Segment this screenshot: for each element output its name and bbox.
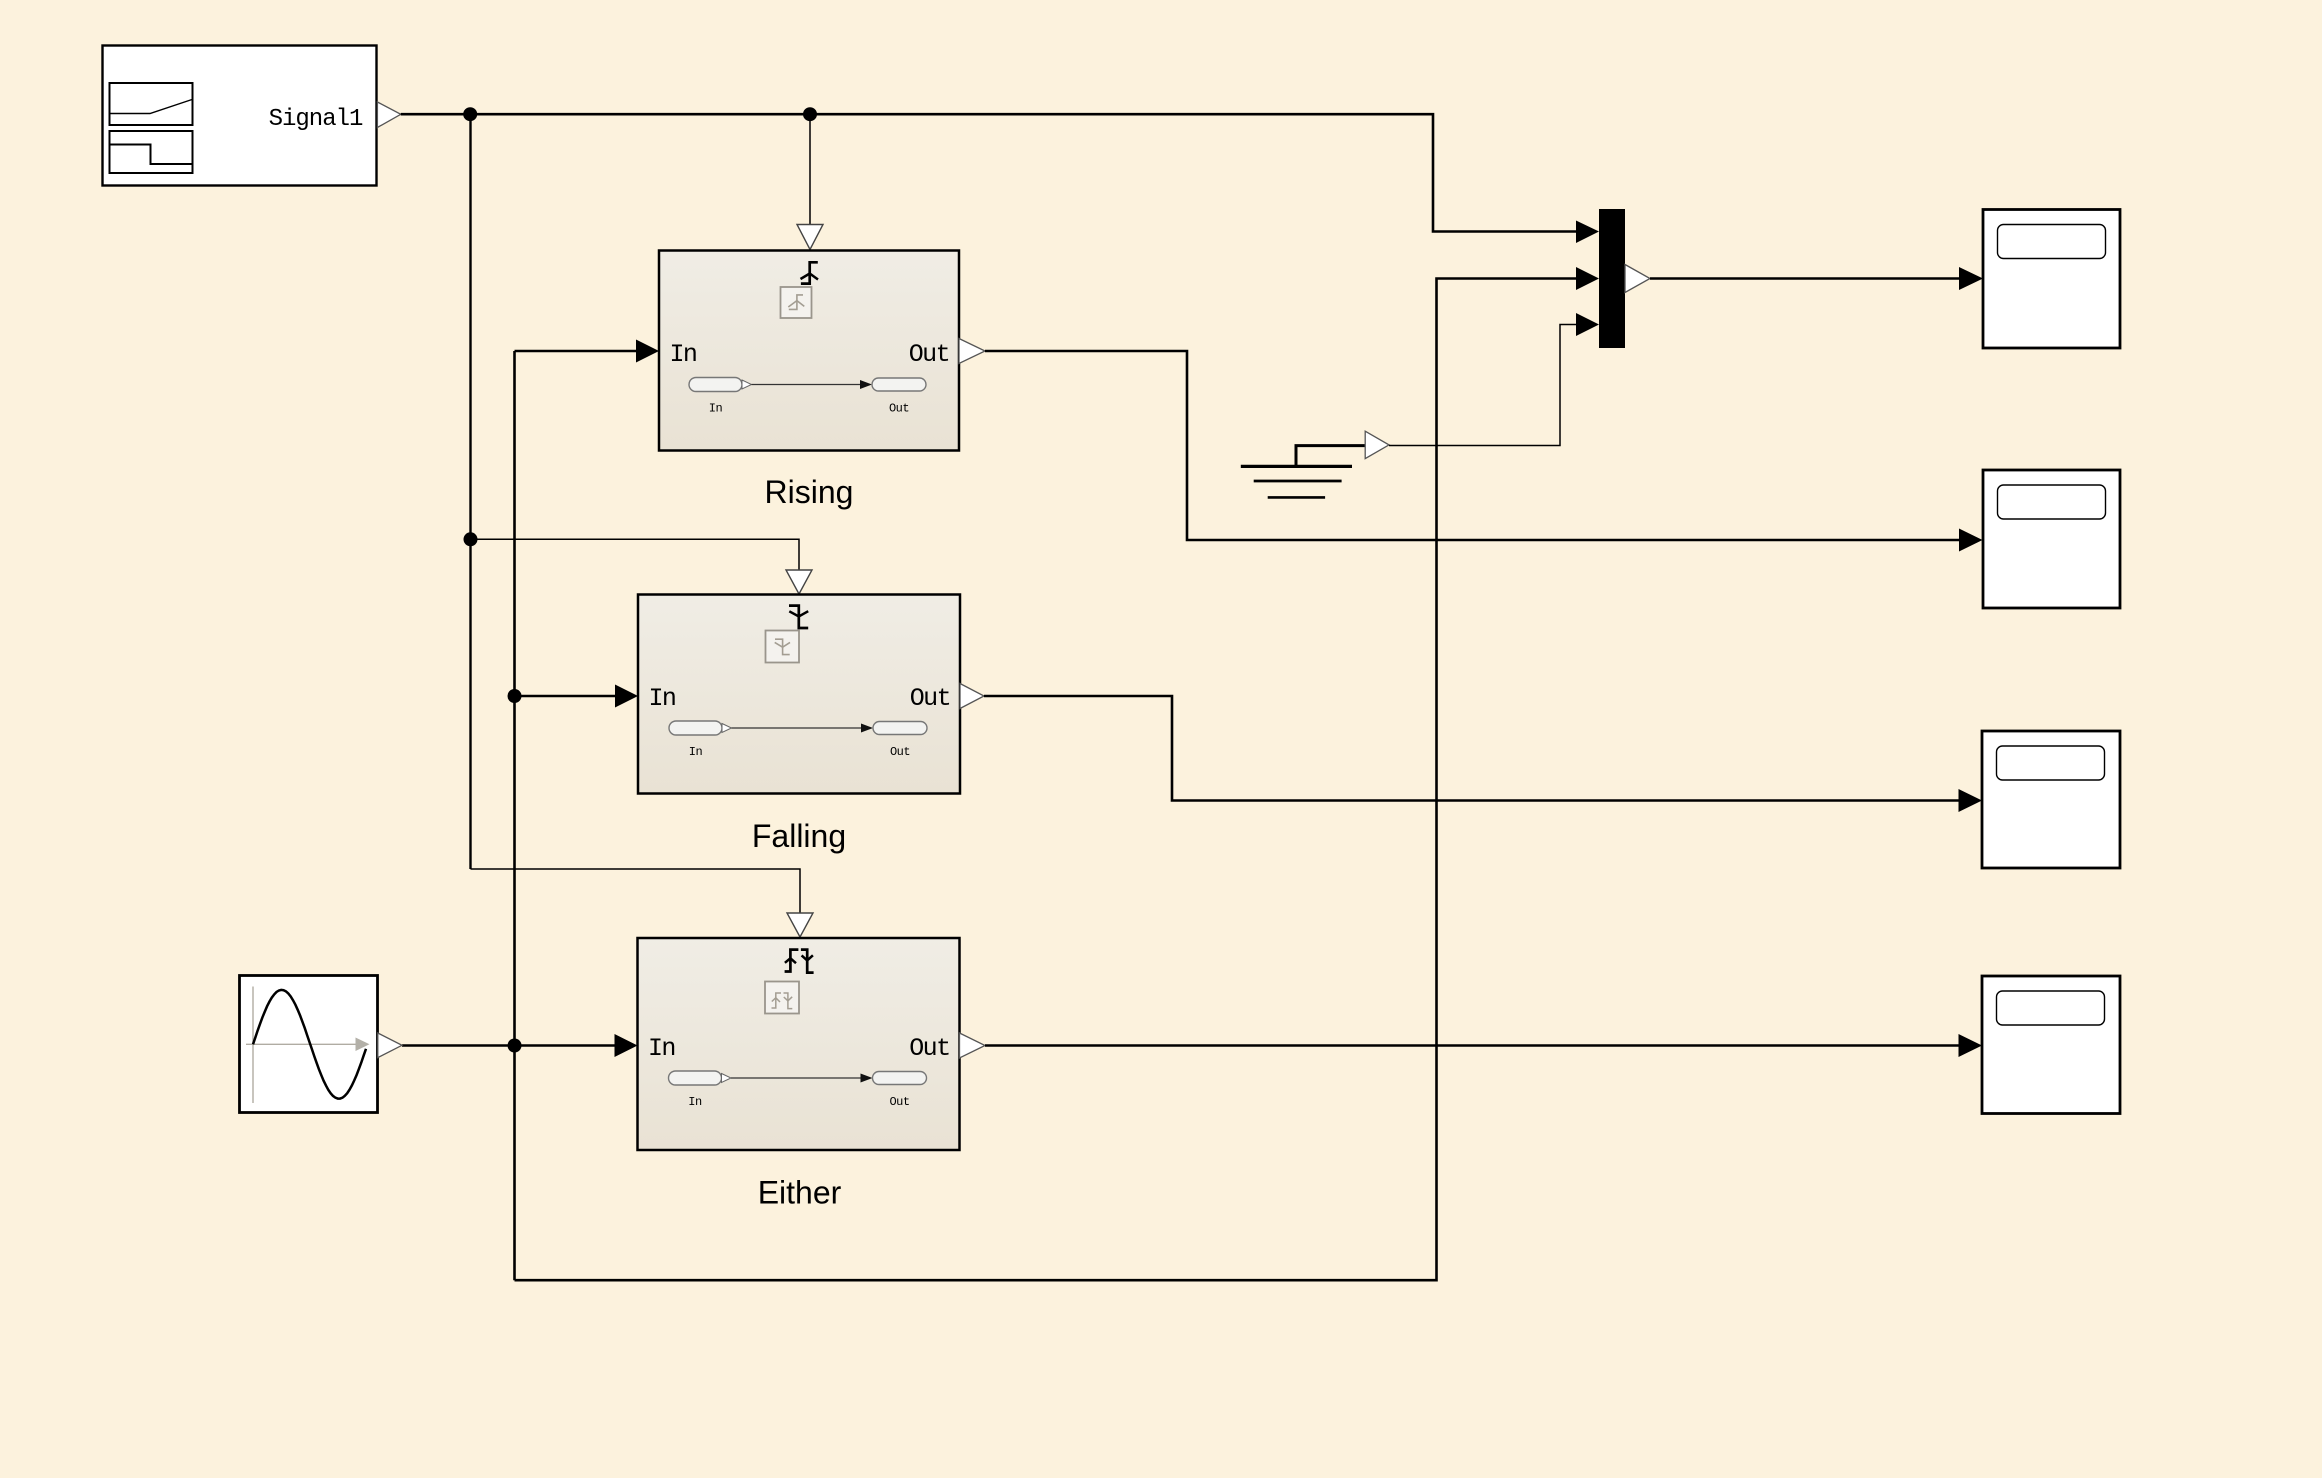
scope screen <box>1998 225 2106 259</box>
svg-text:In: In <box>709 402 723 416</box>
output port of Signal1 <box>377 102 400 128</box>
svg-text:Falling: Falling <box>752 818 846 854</box>
falling-edge trigger glyph <box>789 606 808 628</box>
junction dot B <box>803 107 817 121</box>
output port of Either <box>960 1033 986 1058</box>
scope screen <box>1997 991 2105 1025</box>
rising-edge trigger glyph <box>801 262 818 283</box>
svg-text:Rising: Rising <box>765 474 854 510</box>
subsystem Rising <box>659 251 959 451</box>
wire to Falling trigger <box>471 539 800 570</box>
scope screen <box>1997 746 2105 780</box>
trigger port of Falling <box>786 570 812 594</box>
ramp signal thumbnail <box>110 83 193 125</box>
wire Mux out to Scope1 <box>1650 267 1983 290</box>
svg-text:In: In <box>648 1034 675 1063</box>
step signal thumbnail <box>110 131 193 173</box>
scope Scope4 <box>1982 976 2120 1114</box>
outport pill <box>873 1072 927 1085</box>
block body <box>1982 976 2120 1114</box>
junction dot C <box>464 532 478 546</box>
ground block <box>1241 446 1365 498</box>
svg-text:Out: Out <box>890 745 910 759</box>
wire ground to Mux input 3 <box>1389 313 1599 446</box>
svg-text:Out: Out <box>910 684 950 713</box>
scope Scope2 <box>1983 470 2120 608</box>
svg-text:Out: Out <box>909 340 949 369</box>
svg-text:Out: Out <box>909 1034 949 1063</box>
wire bottom loop to Mux input 2 <box>515 267 1600 1280</box>
trigger port of Rising <box>797 225 823 250</box>
ground stem <box>1296 446 1365 467</box>
axes <box>252 987 254 1104</box>
mux output port <box>1625 265 1650 293</box>
svg-text:In: In <box>649 684 676 713</box>
trigger icon box <box>766 631 800 663</box>
trigger icon box <box>781 287 812 318</box>
mux bar <box>1599 209 1625 348</box>
svg-text:Out: Out <box>889 1095 909 1109</box>
pill connector <box>731 1077 861 1079</box>
subsystem Falling <box>638 595 960 794</box>
output port of sine <box>378 1033 402 1058</box>
pill connector <box>752 384 861 386</box>
wire to Either trigger <box>471 869 801 913</box>
sine curve <box>253 990 366 1099</box>
outport pill <box>873 722 927 735</box>
either-edge trigger glyph <box>785 950 799 972</box>
block body <box>1983 470 2120 608</box>
block body <box>240 976 378 1113</box>
svg-text:Either: Either <box>758 1175 842 1211</box>
output port of ground <box>1365 431 1389 458</box>
scope screen <box>1998 485 2106 519</box>
wire Either Out to Scope4 <box>985 1034 1982 1057</box>
ground bars <box>1241 465 1352 468</box>
wire to Rising trigger <box>809 114 811 224</box>
wire Rising Out to Scope2 <box>985 351 1983 552</box>
inport pill <box>689 378 742 392</box>
wire Signal1 to Mux input 1 <box>401 114 1599 243</box>
block body <box>659 251 959 451</box>
trigger icon box <box>765 982 799 1014</box>
svg-text:Signal1: Signal1 <box>269 106 363 133</box>
block body <box>1982 731 2120 868</box>
svg-text:In: In <box>688 1095 702 1109</box>
mux block <box>1599 209 1650 348</box>
wire sine spine vertical <box>513 351 516 1280</box>
wire to Falling In <box>515 685 639 708</box>
svg-text:Out: Out <box>889 402 909 416</box>
block body <box>1983 210 2120 349</box>
scope Scope1 <box>1983 210 2120 349</box>
block body <box>103 46 377 186</box>
subsystem Either <box>638 938 960 1150</box>
sine wave source <box>240 976 378 1113</box>
scope Scope3 <box>1982 731 2120 868</box>
wire Falling Out to Scope3 <box>984 696 1982 812</box>
wire to Rising In <box>515 340 660 363</box>
inport pill <box>669 1071 722 1085</box>
block body <box>638 595 960 794</box>
junction dot E <box>508 1039 522 1053</box>
svg-text:In: In <box>689 745 703 759</box>
wire sine to Either In <box>402 1034 638 1057</box>
junction dot D <box>508 689 522 703</box>
outport pill <box>872 378 926 391</box>
signal builder block Signal1 <box>103 46 377 186</box>
block body <box>638 938 960 1150</box>
svg-text:In: In <box>670 340 697 369</box>
inport pill <box>669 721 722 735</box>
output port of Falling <box>960 684 984 709</box>
output port of Rising <box>959 339 985 364</box>
junction dot A <box>463 107 477 121</box>
wire left trigger spine <box>469 114 471 869</box>
trigger port of Either <box>787 913 813 937</box>
pill connector <box>732 727 862 729</box>
